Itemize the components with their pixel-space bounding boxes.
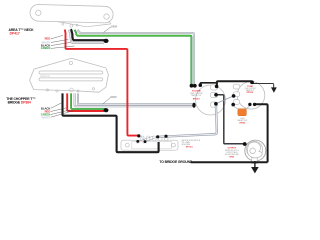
switch wiper diagonal 1 [139,136,154,141]
leader: neck WHITE [51,39,68,42]
tone pot body [237,82,265,110]
leader: bridge GREEN [51,110,70,115]
wire: tone casing to ground arrow [252,84,273,88]
switch wiper diagonal 3 [145,137,159,142]
svg-text:BRIDGE DP384: BRIDGE DP384 [8,101,31,105]
wire: bridge ground bus (bottom) [191,161,268,163]
output jack body [245,140,266,161]
ground symbol arrow (top right) [271,87,277,92]
capacitor leg left [233,105,239,109]
svg-text:EP1201: EP1201 [247,92,254,94]
output jack tip spring contact [247,142,262,158]
solder dot: tone lug3 [231,103,235,107]
bridge pickup rail slot 1 [39,71,103,74]
solder dot: neck green at volume casing [190,84,194,88]
volume pot lug 3 [211,102,218,107]
tone pot lug 3 [233,100,240,105]
solder dot: jack tip lug [243,142,247,146]
wire: bridge gray shield (to volume casing blob) [78,93,193,104]
svg-text:GRAY: GRAY [110,96,117,99]
svg-text:TONE: TONE [247,86,253,88]
switch mount hole right [172,143,176,147]
switch top lug 2 [147,136,150,141]
wire: neck white (taped off with black) [69,30,104,43]
tape blob: bridge white+gray at volume casing [192,103,195,108]
solder dot: switch lug5 [164,135,167,138]
switch lower lug b [143,141,146,143]
solder dot: volume casing jumper [199,83,203,87]
wire: neck gray shield (to volume casing) [78,30,194,85]
wire: neck red (hot to switch lug1) [65,30,138,136]
solder dot: tone casing bottom right [253,103,256,106]
neck pickup (Area T) cover [30,5,113,23]
bridge pickup bottom holes [46,89,48,91]
output jack ground tab [252,158,258,164]
tape blob: neck black+white ends [103,39,108,43]
leader: neck GRAY [104,27,111,33]
svg-text:DP417: DP417 [10,32,20,36]
switch top lug 5 [165,136,168,141]
svg-text:EP065: EP065 [240,123,246,125]
neck pickup mounting ear holes [36,10,41,15]
svg-text:W/ GROUND PAD: W/ GROUND PAD [225,153,240,156]
tone pot lug 2 [233,92,240,97]
wire: bridge green (taped off with red) [71,93,105,109]
switch mount hole left [125,143,129,147]
solder dot: volume lug2 [214,93,218,97]
solder dot: tone casing bottom left [248,103,251,106]
wire: bridge black (to switch bottom common) [63,93,159,152]
wire: tone casing to volume lug1 ground link [217,81,252,86]
output jack inner ring [247,141,263,157]
svg-text:EP1201: EP1201 [193,99,200,101]
wire: neck green (to volume casing ground) [75,30,192,85]
svg-text:WHITE: WHITE [42,115,51,119]
switch top lug 4 [159,136,162,141]
leader: bridge GRAY [103,98,110,104]
bridge pickup apex hole [69,61,72,64]
svg-text:250K CUSTOM: 250K CUSTOM [245,88,256,90]
leader: bridge WHITE [51,111,74,118]
bridge pickup (Chopper T) baseplate [30,58,109,92]
output jack center hub [250,148,256,154]
capacitor C1 (.05 disc) [238,109,247,116]
capacitor leg right [245,105,250,109]
solder dot: volume lug1 [215,85,219,89]
ground symbol arrow (below jack) [254,161,256,167]
wire: white jumper switch common to volume lug3 [158,104,217,137]
switch lower lug a [136,141,139,143]
svg-text:RED: RED [45,37,51,41]
solder dot: tone casing cap blob [250,80,254,84]
wire: bridge red (taped off with green) [67,93,104,111]
switch body [121,140,178,150]
svg-text:GREEN: GREEN [41,46,51,50]
svg-text:TO BRIDGE GROUND: TO BRIDGE GROUND [159,160,193,164]
leader: bridge RED [51,108,66,112]
volume pot lug 2 [211,92,218,97]
switch top lug 3 [153,136,156,141]
svg-text:EP1101: EP1101 [186,147,193,149]
switch wiper diagonal 2 [141,136,145,141]
thin wire: volume lug3 to tone lug2 [216,96,233,104]
bridge pickup rail slot 2 [39,78,103,81]
wire: bridge white (to volume casing blob) [75,93,193,106]
neck flange holes [62,23,64,25]
neck pickup base flange [43,18,111,27]
solder dot: switch lug4 [156,135,159,138]
tone pot lug 1 [233,84,240,89]
volume pot lug 1 [211,85,218,90]
solder blob: neck red at switch lug1 [137,134,140,137]
leader: neck BLACK [51,42,71,45]
tape blob: bridge red+green ends [104,108,109,112]
solder dot: switch lower lug b [144,140,147,143]
wire: neck black (taped off with white) [71,30,104,40]
solder dot: neck gray at volume casing [193,84,197,88]
leader: neck GREEN [51,46,75,48]
wire: volume casing jumper to lug1 [200,83,217,86]
wire: tone casing to jack ground bus [255,104,268,162]
switch inner plate [132,142,172,149]
svg-text:EP05: EP05 [229,157,234,159]
solder dot: switch lower lug a [136,140,139,143]
svg-text:TAPER POT: TAPER POT [191,94,202,97]
solder dot: volume lug3 [214,102,218,106]
svg-text:DiMarzio: DiMarzio [40,75,50,78]
solder dot: tone lug2 [232,94,236,98]
leader: bridge BLACK [51,103,62,108]
leader: neck RED [51,35,63,39]
wire: volume lug2 to output jack tip [216,95,243,144]
switch top lug 1 [141,136,144,141]
svg-text:GRAY: GRAY [111,25,118,28]
volume pot body [196,85,226,115]
